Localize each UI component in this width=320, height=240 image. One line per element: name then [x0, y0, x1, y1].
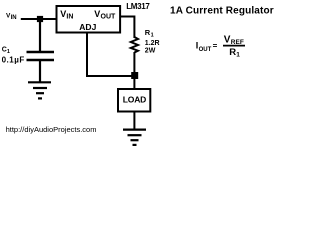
- wire VOUT to corner and down: [121, 17, 134, 39]
- op-amp U1 LM317 regulator box: [57, 6, 121, 33]
- svg-text:1: 1: [151, 33, 154, 39]
- svg-text:1.2R: 1.2R: [145, 40, 160, 47]
- wire LOAD to ground: [133, 112, 135, 130]
- wire ADJ pin down and right: [87, 33, 132, 77]
- svg-text:LM317: LM317: [126, 2, 150, 11]
- ground right: [123, 130, 146, 145]
- svg-text:V: V: [224, 34, 231, 45]
- node junction input: [37, 16, 43, 22]
- node junction ADJ R1: [131, 72, 138, 79]
- svg-text:IN: IN: [11, 15, 17, 21]
- resistor R1 reference label: [145, 28, 154, 39]
- svg-text:1A Current Regulator: 1A Current Regulator: [170, 6, 274, 17]
- svg-text:IN: IN: [66, 14, 73, 21]
- svg-text:V: V: [94, 9, 100, 19]
- wire junction down to C1: [39, 19, 41, 52]
- svg-text:OUT: OUT: [199, 47, 212, 53]
- svg-text:1: 1: [7, 49, 10, 55]
- wire junction down to LOAD: [133, 76, 135, 89]
- svg-text:OUT: OUT: [101, 14, 117, 21]
- wire input horizontal: [21, 18, 57, 20]
- svg-text:0.1µF: 0.1µF: [2, 56, 25, 65]
- capacitor C1 bottom plate: [27, 59, 55, 61]
- pin label VOUT: [94, 9, 116, 21]
- resistor R1 zigzag: [131, 37, 138, 53]
- wire C1 to ground: [39, 61, 41, 82]
- capacitor C1 top plate: [27, 51, 55, 53]
- svg-text:2W: 2W: [145, 47, 156, 54]
- svg-text:http://diyAudioProjects.com: http://diyAudioProjects.com: [6, 125, 97, 134]
- formula IOUT equals VREF over R1: [196, 34, 245, 58]
- pin label VIN: [60, 9, 73, 21]
- wire resistor to junction: [133, 52, 135, 76]
- ground left: [28, 82, 51, 98]
- capacitor C1 reference label: [2, 47, 10, 56]
- svg-text:ADJ: ADJ: [79, 22, 96, 32]
- svg-text:=: =: [213, 41, 218, 50]
- svg-text:LOAD: LOAD: [123, 94, 146, 104]
- svg-text:1: 1: [236, 52, 240, 59]
- LOAD box: [118, 89, 150, 112]
- svg-text:R: R: [229, 47, 236, 58]
- node VIN label: [6, 13, 17, 22]
